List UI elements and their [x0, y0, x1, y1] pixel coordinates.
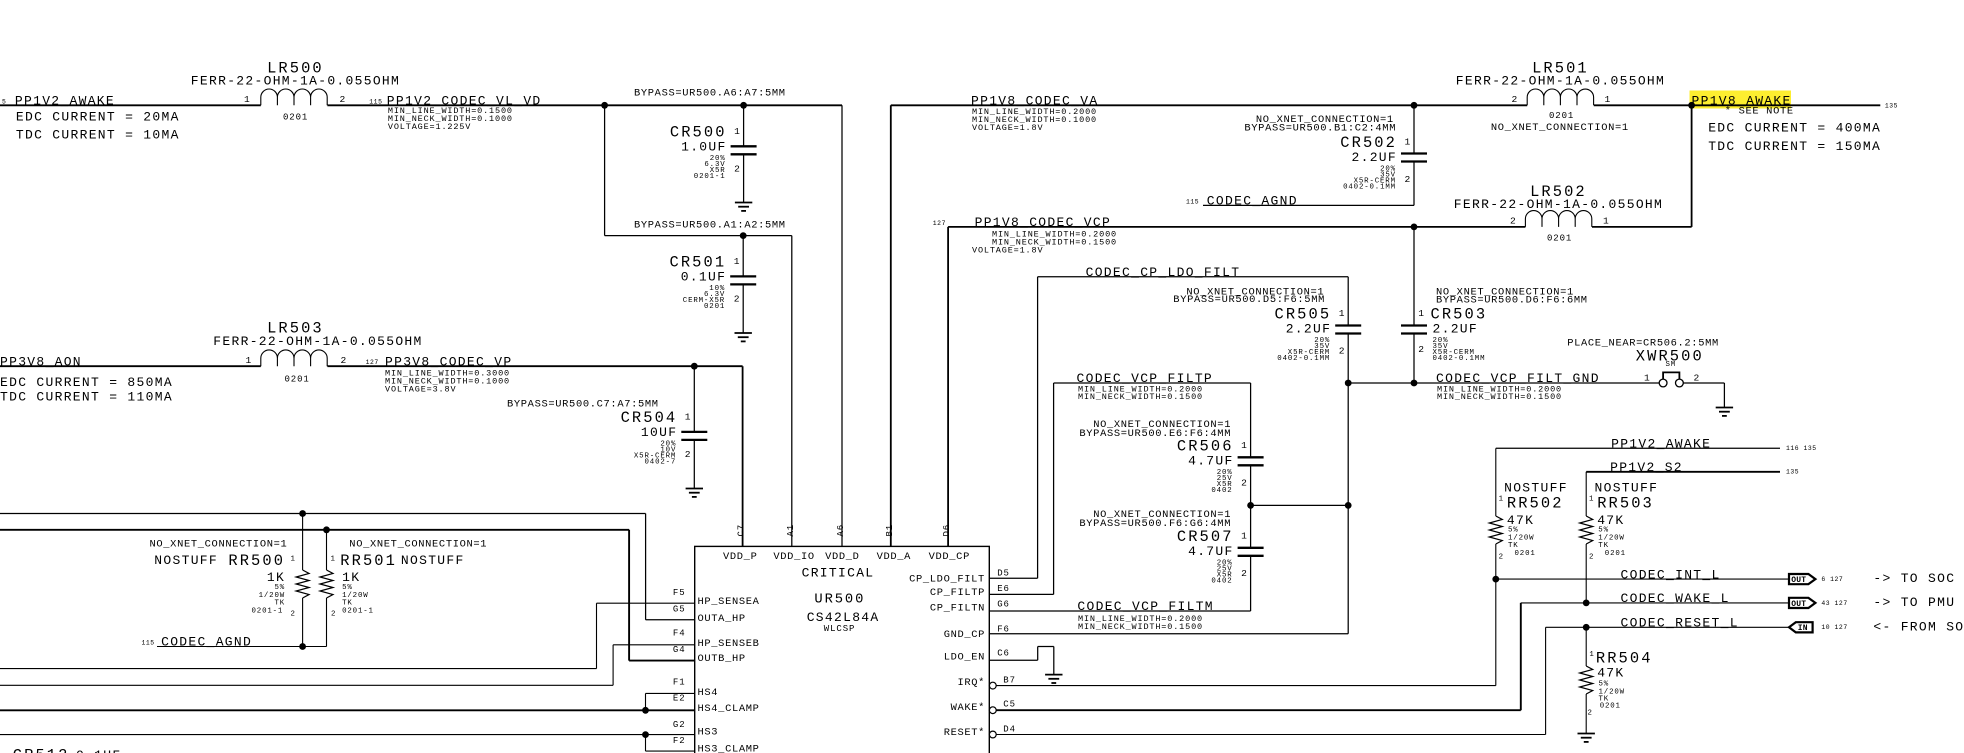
- svg-text:FERR-22-OHM-1A-0.055OHM: FERR-22-OHM-1A-0.055OHM: [191, 74, 400, 89]
- inductor LR503: [213, 320, 422, 385]
- svg-text:2: 2: [341, 355, 347, 366]
- svg-text:0201: 0201: [1547, 233, 1572, 243]
- wire VDD_D riser: [841, 105, 843, 546]
- svg-text:1: 1: [1644, 372, 1650, 383]
- junction CR503 bottom: [1411, 380, 1418, 387]
- svg-text:2: 2: [331, 611, 336, 619]
- wire D5 stub: [989, 577, 1037, 579]
- junction HS4: [642, 707, 649, 714]
- svg-text:E2: E2: [673, 694, 686, 704]
- svg-text:VDD_P: VDD_P: [723, 551, 757, 563]
- svg-text:HP_SENSEA: HP_SENSEA: [698, 596, 760, 608]
- pin number C7: [737, 524, 747, 537]
- svg-text:PP1V2_S2: PP1V2_S2: [1610, 460, 1683, 475]
- capacitor CR507: [1177, 505, 1264, 611]
- svg-text:CS42L84A: CS42L84A: [807, 610, 880, 625]
- svg-text:2: 2: [685, 449, 691, 460]
- wire PP1V2_S2: [1586, 469, 1799, 476]
- wire PP1V2_AWAKE: [0, 104, 261, 106]
- pin numbers right: [997, 568, 1016, 734]
- svg-text:WAKE*: WAKE*: [951, 702, 985, 714]
- svg-text:1K: 1K: [267, 570, 285, 585]
- wire down to bypass2: [604, 105, 606, 235]
- svg-text:1/20W: 1/20W: [1508, 534, 1534, 542]
- wire CODEC_VCP_FILTP: [1054, 382, 1251, 384]
- svg-text:EDC CURRENT = 20MA: EDC CURRENT = 20MA: [16, 110, 180, 125]
- svg-text:BYPASS=UR500.A1:A2:5MM: BYPASS=UR500.A1:A2:5MM: [634, 220, 786, 232]
- svg-text:0201-1: 0201-1: [342, 608, 374, 616]
- resistor RR502: [1489, 448, 1568, 579]
- svg-text:115: 115: [142, 640, 155, 647]
- pin number A1: [786, 524, 796, 537]
- resistor RR503: [1580, 472, 1659, 603]
- svg-text:F4: F4: [673, 629, 686, 639]
- text EDC/TDC current right: [1708, 120, 1881, 154]
- svg-text:2: 2: [1694, 372, 1700, 383]
- junction mid right: [1345, 502, 1352, 509]
- props CODEC_VCP_FILTM: [1078, 614, 1203, 632]
- wire GND_CP: [989, 633, 1348, 635]
- svg-text:D4: D4: [1003, 724, 1016, 734]
- capacitor CR501: [670, 236, 757, 333]
- svg-text:1: 1: [734, 126, 740, 137]
- svg-text:HS3_CLAMP: HS3_CLAMP: [698, 744, 760, 753]
- wire HS3: [0, 734, 695, 736]
- svg-text:1: 1: [1589, 651, 1594, 659]
- svg-text:F5: F5: [673, 588, 686, 598]
- wire bypass A1:A2: [605, 235, 792, 237]
- svg-text:1: 1: [246, 355, 252, 366]
- svg-text:SM: SM: [1666, 361, 1677, 369]
- svg-text:D6: D6: [942, 524, 952, 537]
- svg-text:135: 135: [1885, 102, 1898, 109]
- junction CR503 top: [1411, 224, 1418, 231]
- svg-text:1: 1: [1589, 496, 1594, 504]
- wire IRQ: [996, 579, 1496, 686]
- wire CODEC_AGND top: [1203, 204, 1414, 206]
- svg-text:GND_CP: GND_CP: [944, 629, 985, 641]
- svg-text:127: 127: [366, 359, 379, 366]
- wire PP1V2_AWAKE right: [1496, 445, 1817, 452]
- svg-text:1.0UF: 1.0UF: [681, 139, 727, 154]
- svg-text:0201: 0201: [283, 113, 308, 123]
- svg-text:CODEC_CP_LDO_FILT: CODEC_CP_LDO_FILT: [1086, 265, 1241, 280]
- svg-text:0201: 0201: [1549, 111, 1574, 121]
- svg-text:4.7UF: 4.7UF: [1188, 544, 1234, 559]
- svg-text:0402: 0402: [1211, 487, 1232, 495]
- props PP3V8_CODEC_VP: [385, 369, 510, 395]
- capacitor CR502: [1340, 105, 1427, 205]
- svg-text:NOSTUFF: NOSTUFF: [1504, 481, 1568, 496]
- svg-text:2: 2: [340, 94, 346, 105]
- svg-text:B1: B1: [885, 524, 895, 537]
- net CODEC_CP_LDO_FILT label: [1086, 265, 1241, 280]
- svg-text:2.2UF: 2.2UF: [1352, 150, 1398, 165]
- label NO_XNET CR506: [1079, 419, 1231, 440]
- svg-text:0201: 0201: [1600, 702, 1621, 710]
- svg-text:0201: 0201: [704, 303, 725, 311]
- net CODEC_VCP_FILTM label: [1077, 599, 1214, 614]
- junction CR505 bottom: [1345, 380, 1352, 387]
- svg-text:0402-0.1MM: 0402-0.1MM: [1433, 355, 1486, 363]
- inductor LR501: [1456, 60, 1665, 135]
- junction RESET_L: [1583, 624, 1590, 631]
- highlight PP1V8_AWAKE: [1690, 91, 1792, 109]
- junction HS3: [642, 731, 649, 738]
- resistor RR504: [1580, 627, 1653, 733]
- pin number B1: [885, 524, 895, 537]
- svg-text:C7: C7: [737, 524, 747, 537]
- label BYPASS UR500.A6:A7: [634, 87, 786, 99]
- svg-text:0402-7: 0402-7: [645, 458, 677, 466]
- svg-text:VOLTAGE=3.8V: VOLTAGE=3.8V: [385, 384, 456, 394]
- resistor RR500: [150, 514, 310, 647]
- text CR512 partial: [13, 747, 122, 753]
- svg-text:VDD_CP: VDD_CP: [929, 551, 970, 563]
- svg-text:127: 127: [933, 220, 946, 227]
- wire XWR500 to gnd: [1683, 383, 1724, 408]
- svg-text:OUTB_HP: OUTB_HP: [698, 653, 746, 665]
- svg-text:6 127: 6 127: [1821, 576, 1843, 583]
- jumper XWR500: [1636, 348, 1704, 387]
- svg-text:1: 1: [1339, 308, 1345, 319]
- junction WAKE_L: [1583, 600, 1590, 607]
- svg-text:0402: 0402: [1211, 577, 1232, 585]
- ground XWR500: [1716, 408, 1733, 416]
- svg-text:5%: 5%: [1599, 681, 1610, 689]
- svg-text:B7: B7: [1003, 675, 1016, 685]
- svg-text:135: 135: [1786, 469, 1799, 476]
- ground CR500: [735, 203, 752, 211]
- svg-text:1: 1: [734, 256, 740, 267]
- svg-text:1: 1: [1241, 440, 1247, 451]
- svg-text:1: 1: [331, 556, 336, 564]
- svg-text:115: 115: [1186, 199, 1199, 206]
- capacitor CR500: [670, 105, 757, 202]
- svg-text:5%: 5%: [1598, 527, 1609, 535]
- svg-text:2.2UF: 2.2UF: [1286, 322, 1332, 337]
- svg-text:BYPASS=UR500.A6:A7:5MM: BYPASS=UR500.A6:A7:5MM: [634, 87, 786, 99]
- svg-text:EDC CURRENT = 850MA: EDC CURRENT = 850MA: [0, 375, 173, 390]
- svg-text:TK: TK: [1598, 542, 1609, 550]
- net PP1V2_CODEC_VL_VD label: [369, 93, 541, 108]
- svg-text:EDC CURRENT = 400MA: EDC CURRENT = 400MA: [1708, 120, 1881, 135]
- capacitor CR504: [621, 366, 708, 488]
- svg-text:VOLTAGE=1.8V: VOLTAGE=1.8V: [972, 123, 1043, 133]
- svg-text:2.2UF: 2.2UF: [1433, 322, 1479, 337]
- svg-text:CODEC_AGND: CODEC_AGND: [1207, 194, 1298, 209]
- pin names right: [909, 573, 985, 739]
- svg-text:1: 1: [685, 411, 691, 422]
- net PP1V8_CODEC_VA label: [971, 93, 1098, 108]
- text TO PMU: [1873, 595, 1955, 610]
- svg-text:2: 2: [1418, 344, 1424, 355]
- svg-text:VOLTAGE=1.225V: VOLTAGE=1.225V: [388, 122, 471, 132]
- svg-text:0201: 0201: [1605, 550, 1626, 558]
- capacitor CR506: [1177, 383, 1264, 505]
- wire HP_SENSEB: [0, 645, 695, 686]
- net PP1V2_AWAKE label: [2, 93, 115, 108]
- svg-text:1: 1: [1603, 215, 1609, 226]
- svg-text:FERR-22-OHM-1A-0.055OHM: FERR-22-OHM-1A-0.055OHM: [1454, 197, 1663, 212]
- svg-text:C5: C5: [1003, 699, 1016, 709]
- svg-text:HS4: HS4: [698, 687, 719, 699]
- pin number A6: [836, 524, 846, 537]
- net CODEC_RESET_L label: [1621, 616, 1739, 631]
- svg-text:0.1UF: 0.1UF: [76, 748, 122, 753]
- svg-text:G4: G4: [673, 645, 686, 655]
- svg-text:CRITICAL: CRITICAL: [802, 566, 875, 581]
- svg-text:FERR-22-OHM-1A-0.055OHM: FERR-22-OHM-1A-0.055OHM: [213, 334, 422, 349]
- props CODEC_VCP_FILTP: [1078, 384, 1203, 402]
- text SEE NOTE: [1725, 106, 1794, 118]
- svg-text:RR503: RR503: [1597, 495, 1654, 513]
- svg-text:NO_XNET_CONNECTION=1: NO_XNET_CONNECTION=1: [1491, 122, 1629, 134]
- svg-text:RR500: RR500: [228, 552, 285, 570]
- svg-text:2: 2: [1241, 568, 1247, 579]
- svg-text:F6: F6: [997, 625, 1010, 635]
- IC UR500 labels: [802, 566, 880, 635]
- svg-text:1/20W: 1/20W: [259, 592, 285, 600]
- props PP1V2_CODEC_VL_VD: [388, 106, 513, 132]
- svg-text:4.7UF: 4.7UF: [1188, 453, 1234, 468]
- props CODEC_VCP_FILT_GND: [1437, 384, 1562, 402]
- svg-text:2: 2: [1499, 554, 1504, 562]
- wire VDD_CP riser: [947, 227, 949, 547]
- svg-text:A1: A1: [786, 524, 796, 537]
- svg-text:OUT: OUT: [1791, 576, 1806, 585]
- svg-text:G5: G5: [673, 604, 686, 614]
- svg-text:NOSTUFF: NOSTUFF: [154, 553, 218, 568]
- svg-text:CODEC_RESET_L: CODEC_RESET_L: [1621, 616, 1739, 631]
- label BYPASS UR500.C7:A7: [507, 399, 659, 411]
- pin bubble WAKE: [989, 707, 996, 714]
- svg-text:NOSTUFF: NOSTUFF: [1595, 481, 1659, 496]
- wire VDD_A riser: [890, 105, 892, 546]
- svg-text:1/20W: 1/20W: [342, 592, 368, 600]
- wire gnd riser: [1347, 383, 1349, 634]
- svg-text:OUTA_HP: OUTA_HP: [698, 613, 746, 625]
- svg-text:TDC CURRENT = 10MA: TDC CURRENT = 10MA: [16, 127, 180, 142]
- net PP3V8_CODEC_VP label: [366, 354, 513, 369]
- svg-text:F1: F1: [673, 677, 686, 687]
- capacitor CR505: [1275, 277, 1362, 383]
- text FROM SOC: [1873, 619, 1964, 634]
- ground CR504: [686, 489, 703, 497]
- junction CR501 top: [740, 232, 747, 239]
- svg-text:1: 1: [1241, 530, 1247, 541]
- wire RESET: [996, 627, 1545, 734]
- svg-text:UR500: UR500: [814, 593, 865, 608]
- svg-text:1/20W: 1/20W: [1598, 534, 1624, 542]
- svg-text:1: 1: [244, 94, 250, 105]
- svg-text:BYPASS=UR500.D5:F6:5MM: BYPASS=UR500.D5:F6:5MM: [1173, 294, 1325, 306]
- wire HS4_CLAMP: [0, 709, 695, 711]
- svg-text:2: 2: [1339, 346, 1345, 357]
- svg-text:E6: E6: [997, 584, 1010, 594]
- svg-text:C6: C6: [997, 648, 1010, 658]
- svg-text:10 127: 10 127: [1821, 624, 1847, 631]
- wire CODEC_WAKE_L: [1521, 602, 1789, 604]
- wire PP1V2_CODEC_VL_VD: [327, 104, 842, 106]
- wire PP3V8_AON: [0, 365, 261, 367]
- junction INT_L: [1492, 576, 1499, 583]
- junction RR501 top: [323, 526, 330, 533]
- svg-text:CODEC_WAKE_L: CODEC_WAKE_L: [1621, 591, 1730, 606]
- ground RR504: [1578, 734, 1595, 742]
- junction at 604: [601, 102, 608, 109]
- svg-text:HS3: HS3: [698, 727, 719, 739]
- svg-text:115: 115: [369, 98, 382, 105]
- svg-text:G6: G6: [997, 599, 1010, 609]
- net PP1V8_AWAKE label: [1692, 93, 1792, 108]
- svg-text:BYPASS=UR500.B1:C2:4MM: BYPASS=UR500.B1:C2:4MM: [1244, 123, 1396, 135]
- junction PP1V8_AWAKE: [1688, 102, 1695, 109]
- net CODEC_WAKE_L label: [1621, 591, 1730, 606]
- wire HS3_CLAMP: [646, 735, 695, 752]
- svg-text:HS4_CLAMP: HS4_CLAMP: [698, 703, 760, 715]
- svg-text:TK: TK: [342, 600, 353, 608]
- wire VDD_IO riser: [791, 236, 793, 547]
- svg-text:0201: 0201: [1515, 550, 1536, 558]
- svg-text:PP3V8_CODEC_VP: PP3V8_CODEC_VP: [385, 354, 512, 369]
- wire CODEC_VCP_FILTM: [989, 610, 1250, 612]
- props PP1V8_CODEC_VCP: [972, 229, 1117, 255]
- wire CODEC_RESET_L: [1546, 626, 1789, 628]
- port OUT CODEC_INT_L: [1789, 574, 1843, 585]
- ground CR501: [735, 333, 752, 341]
- svg-text:RR501: RR501: [340, 552, 397, 570]
- svg-text:VDD_D: VDD_D: [825, 551, 859, 563]
- svg-text:CR512: CR512: [13, 747, 70, 753]
- net CODEC_AGND bottom label: [142, 635, 253, 650]
- svg-text:1: 1: [1418, 308, 1424, 319]
- net CODEC_VCP_FILTP label: [1077, 371, 1214, 386]
- svg-text:1K: 1K: [342, 570, 360, 585]
- svg-text:* SEE NOTE: * SEE NOTE: [1725, 106, 1794, 118]
- svg-text:VDD_IO: VDD_IO: [773, 551, 814, 563]
- junction RR500 top: [299, 510, 306, 517]
- svg-text:2: 2: [291, 611, 296, 619]
- port OUT CODEC_WAKE_L: [1789, 598, 1848, 609]
- wire E6 riser: [1053, 383, 1055, 594]
- svg-text:CODEC_INT_L: CODEC_INT_L: [1621, 567, 1721, 582]
- svg-text:A6: A6: [836, 524, 846, 537]
- inductor LR500: [191, 60, 400, 123]
- junction mid left: [1247, 502, 1254, 509]
- svg-text:NO_XNET_CONNECTION=1: NO_XNET_CONNECTION=1: [150, 539, 288, 551]
- wire OUTB_HP: [0, 530, 695, 661]
- port IN CODEC_RESET_L: [1789, 622, 1848, 633]
- label NO_XNET CR503: [1436, 287, 1588, 307]
- svg-text:CODEC_VCP_FILTM: CODEC_VCP_FILTM: [1077, 599, 1214, 614]
- IC UR500 box: [695, 546, 990, 753]
- wire PP3V8_CODEC_VP: [327, 365, 742, 367]
- net PP1V2_S2 label: [1610, 460, 1683, 475]
- wire D5 riser: [1037, 277, 1039, 578]
- wire CODEC_VCP_FILT_GND: [1348, 382, 1659, 384]
- svg-text:RR502: RR502: [1507, 495, 1564, 513]
- svg-text:1: 1: [291, 556, 296, 564]
- wire CODEC_AGND bottom: [157, 646, 327, 648]
- svg-text:2: 2: [1512, 94, 1518, 105]
- svg-text:10UF: 10UF: [641, 425, 677, 440]
- junction CR500 top: [740, 102, 747, 109]
- svg-text:2: 2: [734, 293, 740, 304]
- wire HS4: [646, 693, 695, 710]
- label NO_XNET CR502: [1244, 114, 1396, 135]
- svg-text:2: 2: [734, 163, 740, 174]
- svg-text:D5: D5: [997, 568, 1010, 578]
- svg-text:CODEC_AGND: CODEC_AGND: [161, 635, 252, 650]
- label NO_XNET CR505: [1173, 286, 1325, 306]
- net CODEC_INT_L label: [1621, 567, 1721, 582]
- svg-text:TDC CURRENT = 110MA: TDC CURRENT = 110MA: [0, 390, 173, 405]
- label PLACE_NEAR XWR500: [1567, 338, 1719, 350]
- svg-text:1: 1: [1499, 496, 1504, 504]
- svg-text:0402-0.1MM: 0402-0.1MM: [1343, 184, 1396, 192]
- label NO_XNET CR507: [1079, 509, 1231, 530]
- wire CODEC_CP_LDO_FILT: [1038, 276, 1349, 278]
- pin names left: [698, 596, 760, 753]
- svg-text:FERR-22-OHM-1A-0.055OHM: FERR-22-OHM-1A-0.055OHM: [1456, 74, 1665, 89]
- resistor RR501: [320, 530, 487, 647]
- wire C6 elbow: [989, 647, 1054, 675]
- svg-text:VDD_A: VDD_A: [877, 551, 912, 563]
- svg-text:5: 5: [2, 98, 6, 105]
- junction CR502 top: [1411, 102, 1418, 109]
- wire AWAKE to LR502: [1691, 105, 1693, 227]
- pin names top: [723, 551, 970, 563]
- svg-text:0201-1: 0201-1: [252, 608, 284, 616]
- svg-text:MIN_NECK_WIDTH=0.1500: MIN_NECK_WIDTH=0.1500: [1078, 622, 1203, 632]
- svg-text:RESET*: RESET*: [944, 727, 985, 739]
- svg-text:5%: 5%: [1508, 527, 1519, 535]
- svg-text:WLCSP: WLCSP: [824, 624, 856, 634]
- wire PP1V8_CODEC_VCP: [948, 226, 1525, 228]
- net CODEC_AGND top label: [1186, 194, 1298, 209]
- svg-text:0.1UF: 0.1UF: [681, 269, 727, 284]
- svg-text:2: 2: [1405, 174, 1411, 185]
- svg-text:MIN_NECK_WIDTH=0.1500: MIN_NECK_WIDTH=0.1500: [1437, 392, 1562, 402]
- capacitor CR503: [1401, 227, 1487, 383]
- wire E6 stub: [989, 593, 1053, 595]
- svg-text:5%: 5%: [275, 584, 286, 592]
- wire PP1V8_CODEC_VA: [891, 104, 1527, 106]
- svg-text:TDC CURRENT = 150MA: TDC CURRENT = 150MA: [1708, 139, 1881, 154]
- svg-text:G2: G2: [673, 720, 686, 730]
- svg-text:2: 2: [1510, 215, 1516, 226]
- svg-text:0201: 0201: [285, 375, 310, 385]
- svg-text:NOSTUFF: NOSTUFF: [401, 553, 465, 568]
- pin number D6: [942, 524, 952, 537]
- svg-text:TK: TK: [1508, 542, 1519, 550]
- pin bubble IRQ: [989, 682, 996, 689]
- svg-text:1: 1: [1605, 94, 1611, 105]
- svg-text:CP_FILTN: CP_FILTN: [930, 603, 985, 615]
- wire LR502 to riser: [1592, 226, 1692, 228]
- text EDC/TDC current left: [16, 110, 180, 143]
- svg-text:NO_XNET_CONNECTION=1: NO_XNET_CONNECTION=1: [349, 539, 487, 551]
- net CODEC_VCP_FILT_GND label: [1436, 371, 1600, 386]
- svg-text:CP_LDO_FILT: CP_LDO_FILT: [909, 573, 985, 585]
- svg-text:-> TO SOC: -> TO SOC: [1873, 571, 1955, 586]
- svg-text:0402-0.1MM: 0402-0.1MM: [1277, 355, 1330, 363]
- wire WAKE: [996, 603, 1521, 710]
- wire HP_SENSEA: [0, 603, 695, 668]
- svg-text:43 127: 43 127: [1821, 600, 1847, 607]
- text EDC/TDC current PP3V8: [0, 375, 173, 405]
